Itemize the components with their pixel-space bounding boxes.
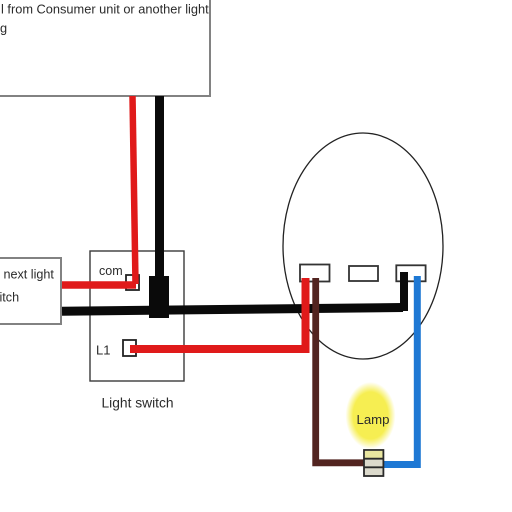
svg-text:l from Consumer unit or anothe: l from Consumer unit or another light [1, 2, 209, 17]
svg-text:g: g [0, 21, 7, 36]
svg-text:Light switch: Light switch [102, 396, 174, 411]
svg-text:itch: itch [0, 291, 19, 305]
svg-text:next light: next light [4, 268, 55, 282]
svg-text:L1: L1 [96, 343, 110, 358]
svg-text:com: com [99, 264, 123, 278]
svg-text:Lamp: Lamp [357, 412, 390, 427]
